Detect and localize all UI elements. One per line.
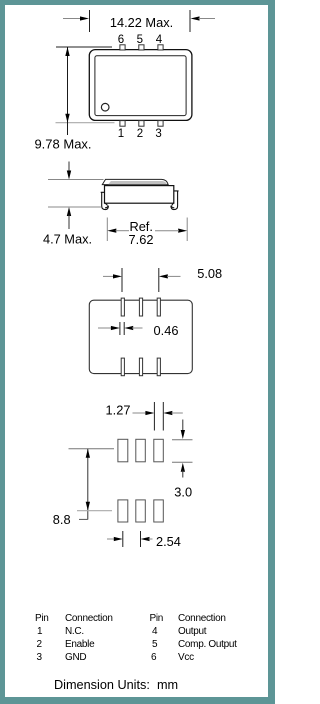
svg-text:Output: Output — [178, 626, 207, 637]
svg-text:Connection: Connection — [178, 613, 226, 624]
svg-text:0.46: 0.46 — [154, 323, 179, 338]
svg-text:4: 4 — [156, 34, 163, 46]
svg-text:2: 2 — [137, 128, 143, 140]
svg-text:5.08: 5.08 — [197, 266, 222, 281]
svg-text:1.27: 1.27 — [106, 402, 131, 417]
svg-text:6: 6 — [151, 652, 157, 663]
svg-text:3: 3 — [37, 652, 43, 663]
svg-text:4: 4 — [152, 626, 158, 637]
svg-text:3: 3 — [155, 128, 161, 140]
svg-text:Pin: Pin — [150, 613, 164, 624]
svg-text:8.8: 8.8 — [53, 512, 71, 527]
svg-text:1: 1 — [118, 128, 124, 140]
svg-text:3.0: 3.0 — [174, 484, 192, 499]
svg-text:7.62: 7.62 — [129, 232, 154, 247]
svg-text:9.78 Max.: 9.78 Max. — [34, 137, 91, 152]
svg-text:Comp. Output: Comp. Output — [178, 639, 237, 650]
svg-text:5: 5 — [137, 34, 143, 46]
svg-text:1: 1 — [37, 626, 43, 637]
svg-text:5: 5 — [152, 639, 158, 650]
svg-text:Enable: Enable — [65, 639, 95, 650]
svg-text:Pin: Pin — [35, 613, 49, 624]
svg-text:GND: GND — [65, 652, 86, 663]
svg-text:Vcc: Vcc — [178, 652, 194, 663]
svg-text:2.54: 2.54 — [156, 534, 181, 549]
svg-text:Dimension Units: mm: Dimension Units: mm — [54, 678, 178, 692]
svg-text:4.7 Max.: 4.7 Max. — [43, 232, 92, 247]
svg-text:6: 6 — [118, 34, 124, 46]
svg-text:N.C.: N.C. — [65, 626, 84, 637]
svg-text:14.22 Max.: 14.22 Max. — [110, 15, 173, 30]
svg-text:Connection: Connection — [65, 613, 113, 624]
svg-text:2: 2 — [37, 639, 43, 650]
